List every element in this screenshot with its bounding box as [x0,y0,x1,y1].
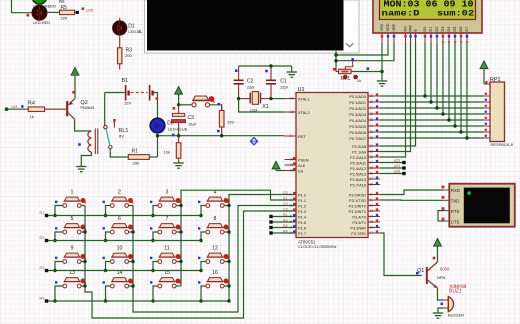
wire keypad row bus R1 [48,215,201,217]
wire LED-BLUE down to R1 node [157,133,159,157]
wire RST net horizontal [158,135,285,137]
svg-text:PSEN: PSEN [298,157,309,162]
wire P0 data bus rows to RP1 [380,96,484,138]
wire D1 to R3 [119,35,121,48]
svg-text:9: 9 [290,134,292,138]
power arrow VCC at EA pin [272,161,280,169]
svg-text:P2.7/A15: P2.7/A15 [350,182,366,187]
svg-text:8V: 8V [119,134,124,139]
svg-text:ALE: ALE [298,163,306,168]
crystal X1 12M [239,92,271,113]
wire button 4 right to column [224,205,229,207]
svg-text:39: 39 [370,94,374,98]
svg-text:RTS: RTS [451,209,460,214]
red marker near LED-RED [27,14,30,17]
wire button 6 right to column [129,231,133,233]
resistor R3 200 [118,48,133,70]
svg-text:D3: D3 [441,27,445,32]
node RST junctions [156,134,159,137]
wire button 2 left drop [106,206,111,216]
svg-text:12V: 12V [124,101,131,106]
wire button 13 left drop [55,286,63,301]
power arrow VCC at RP1 [480,61,488,69]
wire battery left to relay switch [105,92,125,94]
terminal R4 [40,297,49,303]
wire button 13 right to column [81,285,85,287]
terminal p24 [5,105,24,111]
resistor pack RP1 RESPACK-8 [484,77,514,147]
push button 9 (keypad) [55,246,86,264]
svg-text:P0.0/AD0: P0.0/AD0 [349,94,366,99]
black popup window with scrollbar [145,0,360,53]
svg-text:P0.4/AD4: P0.4/AD4 [349,118,366,123]
wire relay switch to R1 [110,149,128,157]
wire vcc node to reset button [179,104,192,106]
node C1 rail junction [269,64,272,67]
wire button 10 left drop [106,262,111,271]
svg-text:3: 3 [166,190,169,196]
svg-text:BUZ1: BUZ1 [449,289,462,295]
wire Q1 emitter to buzzer [438,288,444,300]
wire reset button to 220 resistor [210,105,222,110]
svg-text:R3: R3 [40,266,45,270]
U1 right pins P0.0-P0.7/AD [349,93,380,140]
svg-text:P3.3/INT1: P3.3/INT1 [348,209,366,214]
wire button 8 right to column [224,231,229,233]
svg-text:Q1: Q1 [417,268,424,274]
push button 13 (keypad) [55,270,86,288]
wire column 1 vertical [85,206,295,319]
svg-text:P2.5/A13: P2.5/A13 [350,171,366,176]
LCD display LM016L (cut at top) [373,0,482,33]
svg-text:5: 5 [71,216,74,222]
wire RS to P2.2 [380,43,406,157]
wire button 5 right to column [81,231,85,233]
wire button 3 left drop [153,206,158,216]
svg-text:R1: R1 [40,211,45,215]
svg-text:28: 28 [370,182,374,186]
wire button 16 left drop [201,286,206,301]
wire button 8 left drop [201,232,206,241]
wire column 3 vertical to P1.1 [181,190,295,286]
U1 right pins P3.0-P3.7 [348,192,380,236]
wire button 5 left drop [55,232,63,241]
svg-text:LED-RED: LED-RED [33,20,50,25]
relay RL1 8V [78,119,128,154]
wire button 3 right to column [176,205,181,207]
LCD pins VSS VDD VEE RS RW E D0-D7 [380,23,469,44]
svg-text:34: 34 [370,124,374,128]
blue marker at 220 corner [217,103,220,106]
svg-text:18: 18 [290,110,294,114]
wire XTAL2 [239,99,285,112]
svg-text:1: 1 [71,190,74,196]
svg-text:11: 11 [164,246,169,252]
capacitor C3 10uF [172,105,198,136]
push button 7 (keypad) [150,216,181,234]
svg-text:6: 6 [118,216,121,222]
resistor R5 220 [60,5,75,20]
svg-text:38: 38 [370,100,374,104]
svg-text:P1.6: P1.6 [298,225,306,230]
wire button 14 right to column [129,285,133,287]
svg-text:8: 8 [214,216,217,222]
push button 15 (keypad) [150,270,181,288]
push button 11 (keypad) [150,246,181,264]
wire RTS-CTS bridge [438,211,443,221]
svg-text:P0.7/AD7: P0.7/AD7 [349,136,366,141]
svg-text:RXD: RXD [451,188,460,193]
ground under LCD [377,80,387,82]
svg-text:VEE: VEE [392,23,396,31]
svg-text:P2.0/A8: P2.0/A8 [352,144,366,149]
svg-text:22pf: 22pf [247,85,255,89]
capacitor C1 22pf [266,66,289,99]
push button 2 (keypad) [103,190,134,208]
svg-text:16: 16 [212,270,218,276]
svg-text:8050: 8050 [440,267,450,272]
svg-text:VDD: VDD [386,23,390,31]
svg-text:1k: 1k [30,114,34,119]
wire button 2 right to column [129,205,133,207]
svg-text:R5: R5 [61,5,68,11]
svg-text:P1.4: P1.4 [298,214,307,219]
svg-text:25: 25 [370,166,374,170]
svg-text:name:D: name:D [382,9,421,18]
svg-text:P3.6/WR: P3.6/WR [350,225,366,230]
svg-text:16: 16 [370,225,374,229]
svg-text:10: 10 [117,246,123,252]
svg-text:D5: D5 [453,27,457,32]
wire column 4 vertical to P1.0 [229,195,295,302]
terminal p25 [75,7,94,14]
svg-text:P0.1/AD1: P0.1/AD1 [349,100,366,105]
svg-text:p23: p23 [394,158,400,162]
svg-text:R6: R6 [59,0,65,4]
svg-text:P3.4/T0: P3.4/T0 [352,214,366,219]
svg-text:11: 11 [370,198,374,202]
svg-text:D6: D6 [459,27,463,32]
wire keypad row bus R4 [48,300,229,302]
svg-text:35: 35 [370,118,374,122]
wire VDD rail [336,43,388,55]
resistor 220 (reset) [219,105,234,136]
push button 8 (keypad) [198,216,229,234]
svg-text:C3: C3 [188,115,195,121]
push button 12 (keypad) [198,246,229,264]
svg-text:D4: D4 [447,27,451,32]
wire LCD D0-D7 verticals to P0 bus [423,43,468,140]
svg-text:1k.: 1k. [137,29,142,34]
svg-text:27: 27 [370,177,374,181]
svg-text:XTAL2: XTAL2 [298,110,310,115]
push button 1 (keypad) [55,190,86,208]
push button 10 (keypad) [103,246,134,264]
blue marker 220 bottom [217,130,220,133]
wire button 7 right to column [176,231,181,233]
wire VEE rail [336,43,394,61]
push button 5 (keypad) [55,216,86,234]
svg-text:C1: C1 [280,78,287,84]
wire button 9 right to column [81,261,85,263]
voltage probe marker (blue diamond) [250,138,257,145]
svg-text:P0.5/AD5: P0.5/AD5 [349,124,366,129]
power arrow VCC reset [175,87,183,95]
wire column 2 vertical [133,206,295,313]
svg-text:10: 10 [370,192,374,196]
wire button 16 right to column [224,285,229,287]
wire RW to P2.1 [380,43,411,152]
power arrow VCC at Q1 collector [434,239,442,247]
svg-text:RESPACK-8: RESPACK-8 [491,142,514,147]
wire LED-RED to R5 [47,11,60,13]
svg-text:P1.7: P1.7 [298,231,306,236]
svg-text:P0.6/AD6: P0.6/AD6 [349,130,366,135]
wire VSS to ground [381,43,383,81]
svg-text:CTS: CTS [451,219,460,224]
svg-text:23: 23 [370,155,374,159]
wire button 15 left drop [153,286,158,301]
wire P3.1 to terminal TXD [380,199,443,201]
svg-text:P3.0/RXD: P3.0/RXD [349,192,366,197]
svg-text:9: 9 [71,246,74,252]
svg-text:220: 220 [61,15,68,20]
blue marker C1 [265,70,268,73]
op-amp U1 AT89C51 body [296,87,368,249]
wire XTAL1 [271,98,285,100]
blue marker C2 [235,69,238,72]
wire VCC drop from window to pot RV1 [335,51,337,72]
svg-text:p24: p24 [12,105,18,109]
wire button 11 left drop [153,262,158,271]
svg-text:P1.5: P1.5 [298,220,306,225]
svg-text:1k: 1k [357,78,361,83]
ground under buzzer [433,312,443,314]
U1 left pins XTAL1/XTAL2/RST/PSEN/ALE/EA [285,96,310,173]
svg-text:P2.1/A9: P2.1/A9 [352,149,366,154]
red marker Q2 collector [72,91,75,94]
wire R4 to Q2 base [45,108,67,110]
terminal squares P1.4-P1.7 [269,215,295,235]
push button 16 (keypad) [198,270,229,288]
svg-text:p25: p25 [87,8,94,13]
ground crystal caps [291,66,293,72]
wire keypad row bus R2 [48,240,201,242]
buzzer BUZ1 [441,284,468,318]
svg-text:P0.2/AD2: P0.2/AD2 [349,106,366,111]
wire button 10 right to column [129,261,133,263]
node VSS/pot junction [380,70,383,73]
svg-text:RS: RS [404,26,408,32]
svg-text:R4: R4 [28,101,35,107]
resistor R1 330 [128,148,149,165]
svg-text:D2: D2 [435,27,439,32]
wire p24 to R4 [7,108,24,110]
svg-text:7: 7 [166,216,169,222]
svg-text:12: 12 [370,203,374,207]
ground under 10k [173,162,183,164]
wire button 12 right to column [224,261,229,263]
svg-text:P2.3/A11: P2.3/A11 [350,160,366,165]
wire buzzer to ground [438,308,443,313]
wire button 12 left drop [201,262,206,271]
push button 3 (keypad) [150,190,181,208]
svg-text:12: 12 [212,246,218,252]
svg-text:P3.2/INT0: P3.2/INT0 [348,203,366,208]
LED D6 LED-BLUE [150,118,187,133]
svg-text:NPN: NPN [437,275,446,280]
wire keypad row bus R3 [48,270,201,272]
svg-text:C2: C2 [247,78,254,84]
svg-text:P3.7/RD: P3.7/RD [351,231,366,236]
battery B1 12V [122,78,153,106]
svg-text:R2: R2 [40,236,45,240]
svg-text:P0.3/AD3: P0.3/AD3 [349,112,366,117]
wire P3.0 to terminal RXD [380,190,443,195]
wire battery right down to LED-BLUE [154,93,158,119]
ground under relay [76,166,86,168]
svg-text:EA: EA [298,168,304,173]
svg-text:19: 19 [290,96,294,100]
U1 right pins P2.0-P2.7/A8-A15 [350,143,380,187]
svg-text:PN3645: PN3645 [81,106,95,110]
potentiometer RV1 1k [333,58,382,83]
red marker Q1 collector [433,257,436,260]
svg-text:p25: p25 [394,169,400,173]
transistor Q1 8050 NPN [417,262,450,288]
svg-text:26: 26 [370,171,374,175]
svg-text:XTAL1: XTAL1 [298,96,310,101]
push button 4 (keypad) [198,190,229,208]
svg-text:VSS: VSS [380,23,384,31]
svg-text:2: 2 [118,190,121,196]
svg-text:P2.6/A14: P2.6/A14 [350,177,367,182]
svg-text:P3.1/TXD: P3.1/TXD [349,198,366,203]
svg-text:R1: R1 [132,148,139,154]
svg-text:22: 22 [370,149,374,153]
svg-text:B1: B1 [122,78,129,84]
wire button 4 left drop [201,206,206,216]
reset push button [191,96,215,107]
wire button 1 left drop [55,206,63,216]
red marker battery right wire [156,97,159,100]
svg-text:BUZZER: BUZZER [448,313,464,318]
svg-text:P3.5/T1: P3.5/T1 [352,220,366,225]
svg-text:P2.4/A12: P2.4/A12 [350,166,366,171]
svg-text:17: 17 [370,231,374,235]
node crystal junctions [237,97,240,100]
svg-text:TXD: TXD [451,199,460,204]
terminals p23 p24 p25 at P2.3-P2.5 [380,158,406,175]
svg-text:LED-BLUE: LED-BLUE [168,127,188,132]
svg-text:22pf: 22pf [280,85,288,89]
wire button 9 left drop [55,262,63,271]
LED-GREEN D? (cut at top edge) [32,0,56,8]
power arrow VCC at Q2 collector [71,68,79,76]
svg-text:sum:02: sum:02 [437,9,474,18]
svg-text:330: 330 [133,160,140,165]
svg-text:37: 37 [370,106,374,110]
wire button 14 left drop [106,286,111,301]
resistor 10k [164,136,181,163]
svg-text:220: 220 [227,119,234,124]
wire button 11 right to column [176,261,181,263]
svg-text:33: 33 [370,130,374,134]
svg-text:15: 15 [370,220,374,224]
push button 14 (keypad) [103,270,134,288]
wire R1 to LED-BLUE branch [149,156,157,158]
resistor R4 1k [28,101,45,119]
svg-text:10k: 10k [164,149,170,154]
svg-text:P1.2: P1.2 [298,203,306,208]
svg-text:36: 36 [370,112,374,116]
svg-text:X1: X1 [262,104,269,110]
terminal R2 [40,236,49,242]
svg-text:D1: D1 [429,27,433,32]
svg-text:R4: R4 [40,297,45,301]
svg-text:200: 200 [125,53,132,58]
svg-text:24: 24 [370,160,374,164]
svg-text:p24: p24 [394,164,400,168]
LED D1 LED-BLUE (label cut by window) [113,18,143,35]
svg-text:P1.1: P1.1 [298,198,306,203]
svg-text:D0: D0 [423,27,427,32]
svg-text:P2.2/A10: P2.2/A10 [350,155,367,160]
svg-text:P1.3: P1.3 [298,209,306,214]
terminal R3 [40,266,49,272]
svg-text:21: 21 [370,144,374,148]
node reset-top junction [177,103,180,106]
wire ground rail (caps) [239,65,292,67]
svg-text:D7: D7 [465,27,469,32]
svg-text:10uF: 10uF [188,122,197,126]
svg-text:RW: RW [409,25,413,32]
wire P3.7 to Q1 base [380,233,422,276]
red marker reset vcc [173,107,176,110]
wire LED-RED left to top edge [12,0,33,13]
svg-text:P1.0: P1.0 [298,192,307,197]
svg-text:14: 14 [370,214,374,218]
LED-RED D? [32,6,50,26]
wire button 1 right to column [81,205,85,207]
svg-text:CLOCK=11.0592MHz: CLOCK=11.0592MHz [298,244,337,249]
svg-text:RST: RST [298,134,306,139]
svg-text:13: 13 [370,209,374,213]
capacitor C2 22pf [234,66,256,99]
wire E to P2.0 [380,43,416,146]
virtual terminal [442,184,515,227]
transistor Q2 PN3645 (PNP) [67,99,94,119]
wire Q2 emitter to relay coil [75,119,92,131]
U1 left pins P1.0-P1.7 [283,191,307,236]
blue marker Q1 base [416,272,419,275]
wire button 7 left drop [153,232,158,241]
svg-text:32: 32 [370,136,374,140]
terminal R1 [40,211,49,217]
wire relay coil to ground [81,152,91,167]
push button 6 (keypad) [103,216,134,234]
wire button 6 left drop [106,232,111,241]
blue marker C3 node [172,134,175,137]
wire button 15 right to column [176,285,181,287]
